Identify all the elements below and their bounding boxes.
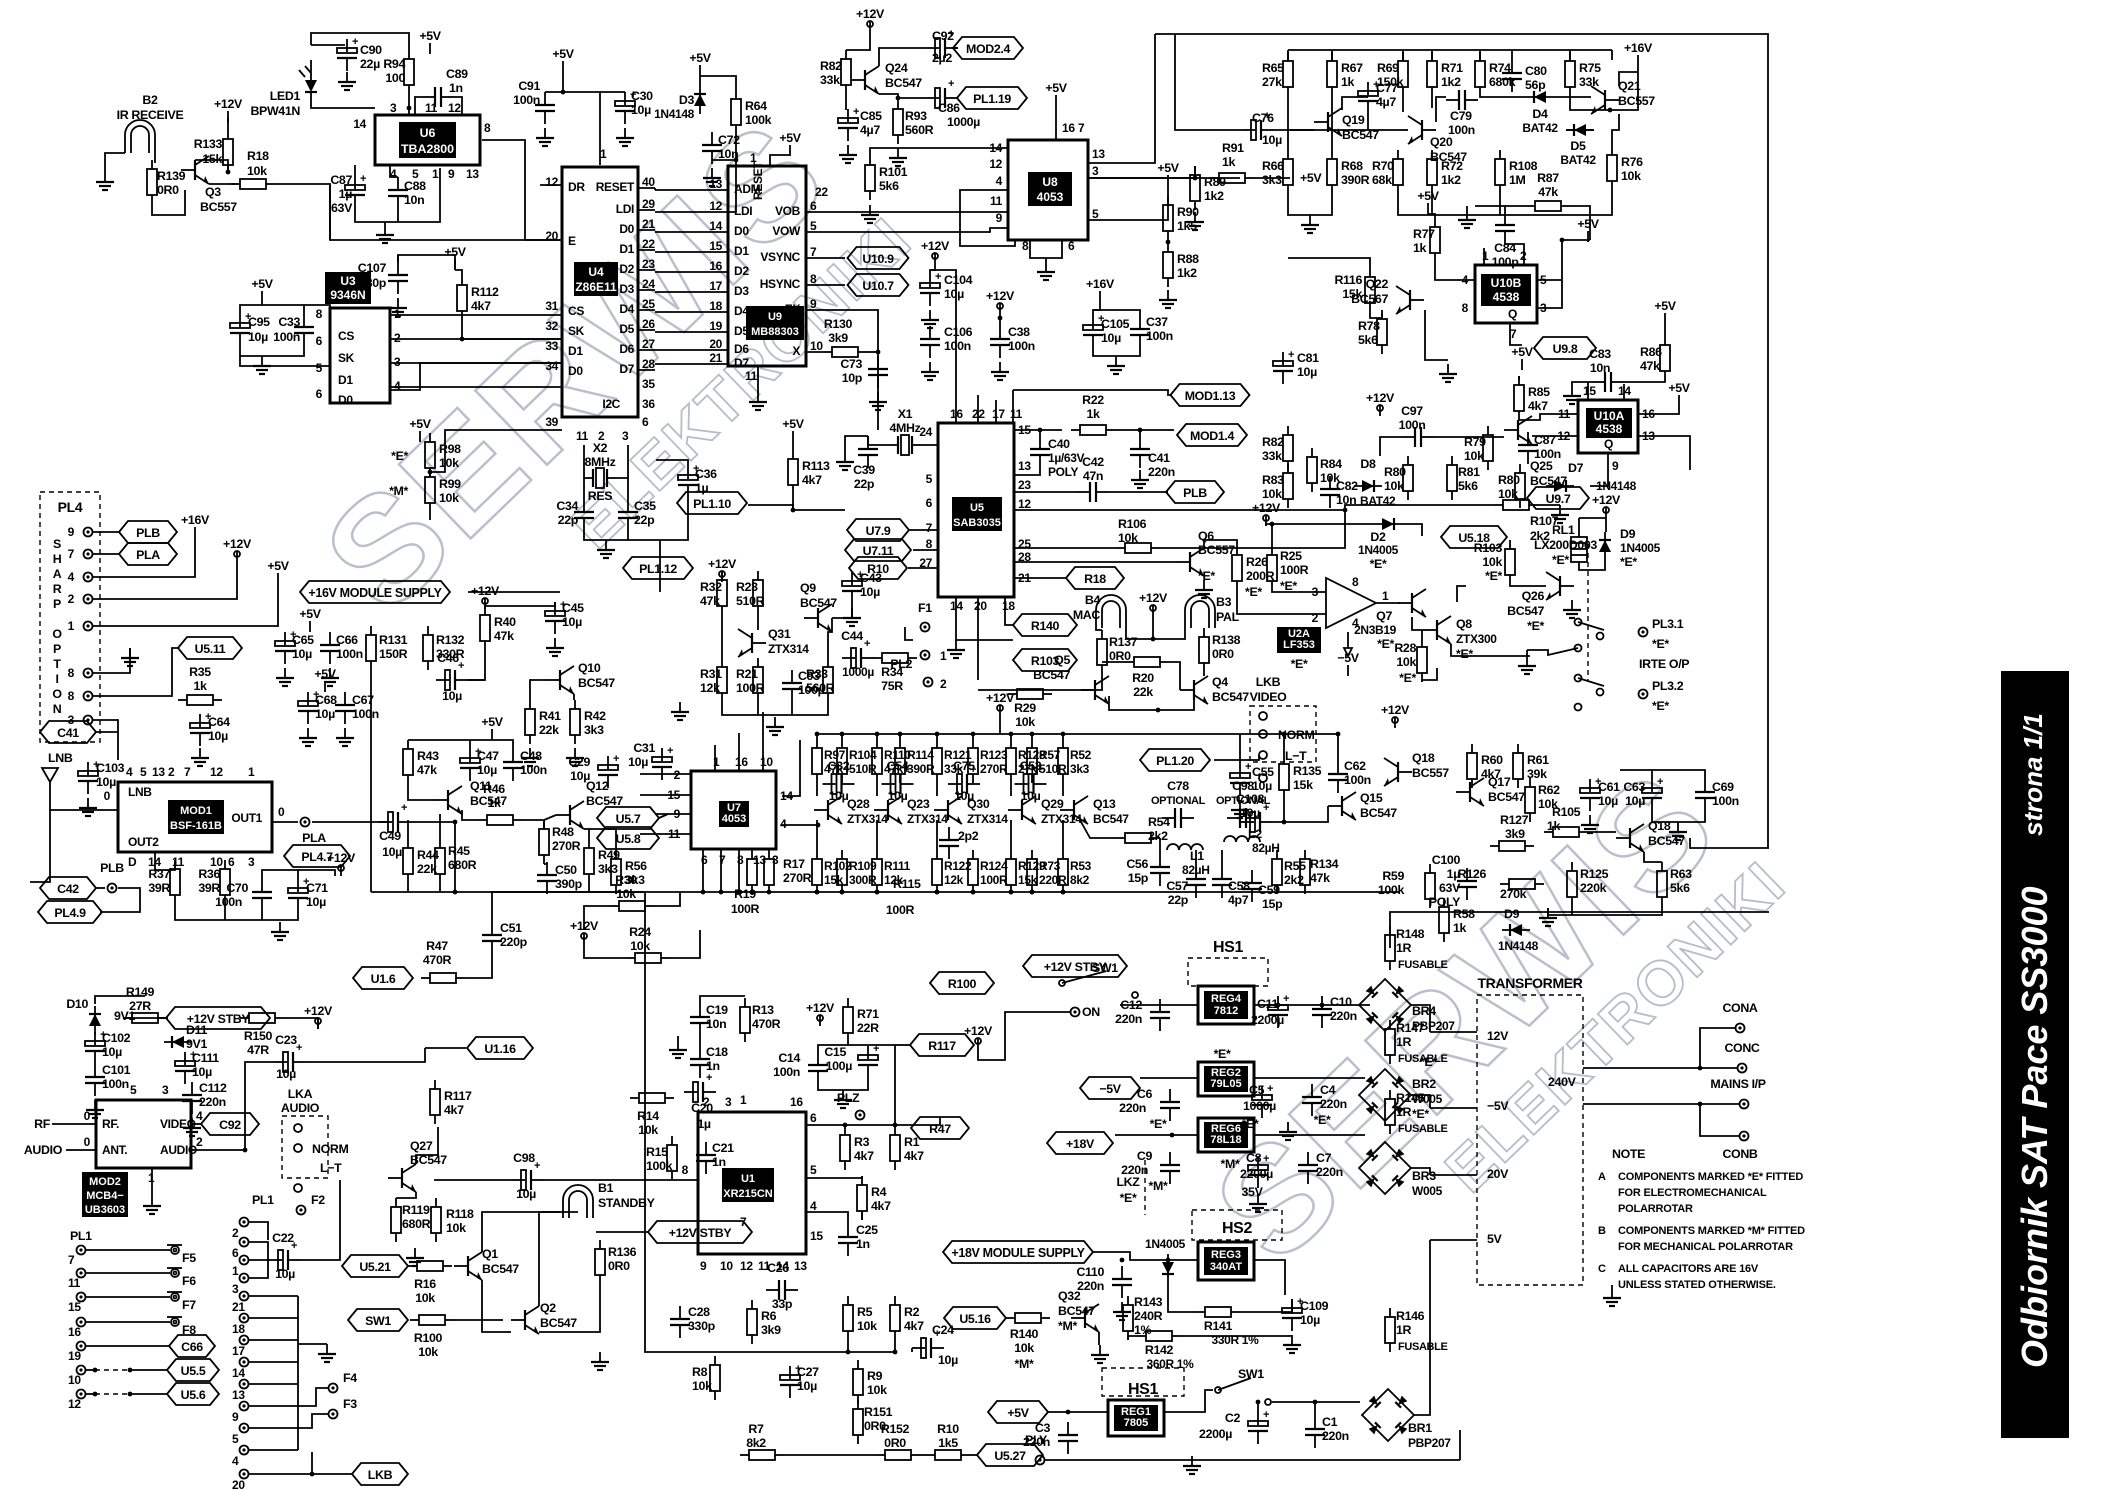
resistor R82(2)	[1262, 426, 1293, 470]
capacitor None	[190, 711, 211, 746]
svg-text:1000µ: 1000µ	[842, 665, 874, 679]
svg-text:21: 21	[642, 217, 655, 231]
bridge rectifier	[1359, 1142, 1411, 1194]
power +5V	[314, 667, 336, 692]
svg-text:22µ: 22µ	[360, 57, 380, 71]
svg-text:*M*: *M*	[1149, 1179, 1168, 1193]
resistor R54	[1116, 833, 1160, 843]
svg-text:R100: R100	[414, 1331, 443, 1345]
svg-text:F1: F1	[918, 601, 932, 615]
resistor R1	[890, 1126, 924, 1170]
wire rl1 bottom	[1579, 560, 1605, 570]
svg-text:ADM: ADM	[734, 182, 761, 196]
wire Q9 down	[1590, 453, 1608, 486]
node	[875, 732, 880, 737]
resistor R7	[740, 1450, 784, 1460]
svg-text:4µ7: 4µ7	[1376, 95, 1396, 109]
resistor R34	[873, 653, 917, 663]
svg-text:220n: 220n	[1115, 1012, 1142, 1026]
wire R139 to Q3	[152, 190, 185, 215]
svg-text:U10A: U10A	[1594, 409, 1625, 423]
power +5V	[251, 277, 273, 302]
ground	[836, 452, 854, 470]
svg-text:1: 1	[1382, 589, 1389, 603]
wire p21	[1014, 577, 1066, 579]
svg-text:R142: R142	[1145, 1343, 1174, 1357]
wire +5V U8	[1055, 106, 1057, 140]
IC U5 SAB3035 body	[938, 423, 1014, 597]
svg-text:C18: C18	[706, 1045, 728, 1059]
resistor R53	[1058, 850, 1092, 894]
svg-text:P: P	[53, 642, 61, 656]
svg-text:R141: R141	[1204, 1319, 1233, 1333]
terminal ON	[1071, 1008, 1080, 1017]
ground	[276, 668, 294, 686]
wire	[861, 1212, 863, 1220]
wire	[583, 478, 585, 499]
capacitor None	[288, 876, 309, 911]
svg-text:Q21: Q21	[1618, 79, 1641, 93]
resistor R114	[895, 739, 935, 783]
wire	[396, 1192, 416, 1198]
wire PL1c	[249, 1383, 298, 1385]
svg-text:*E*: *E*	[1245, 585, 1262, 599]
net flag U5.8	[597, 827, 659, 849]
wire	[1367, 114, 1369, 130]
svg-text:4: 4	[196, 1109, 203, 1123]
IC label U4	[574, 262, 618, 296]
node	[1030, 890, 1035, 895]
terminal F2	[297, 1206, 306, 1215]
wire	[312, 821, 388, 823]
svg-text:U1.6: U1.6	[371, 972, 396, 986]
svg-text:11: 11	[576, 429, 589, 443]
svg-text:BAT42: BAT42	[1560, 153, 1596, 167]
svg-text:HS1: HS1	[1128, 1381, 1159, 1398]
svg-text:27: 27	[642, 337, 655, 351]
capacitor None	[1518, 432, 1538, 464]
resistor R97	[812, 739, 846, 783]
wire	[999, 314, 1001, 326]
wire C108 to Q15	[1273, 806, 1328, 822]
svg-text:R140: R140	[1031, 619, 1060, 633]
IC label U5	[952, 497, 1002, 531]
svg-text:+12V STBY: +12V STBY	[669, 1226, 733, 1240]
terminal PLY	[1036, 1456, 1045, 1465]
capacitor None	[294, 314, 314, 346]
capacitor None	[1150, 999, 1170, 1031]
svg-text:C4: C4	[1320, 1083, 1336, 1097]
svg-text:R23: R23	[736, 580, 758, 594]
wire p4 loop	[960, 190, 1015, 246]
terminal F1	[921, 623, 930, 632]
svg-text:ALL CAPACITORS ARE 16V: ALL CAPACITORS ARE 16V	[1618, 1263, 1759, 1275]
svg-text:100n: 100n	[773, 1065, 800, 1079]
wire	[390, 165, 398, 177]
IC U8 4053 body	[1008, 140, 1088, 240]
svg-text:C54: C54	[887, 759, 909, 773]
node	[1038, 428, 1043, 433]
svg-text:22k: 22k	[539, 723, 559, 737]
net flag U5.6	[167, 1383, 219, 1405]
resistor R149	[123, 1013, 167, 1023]
wire Q7 to Q8	[1412, 617, 1423, 630]
wire R99 down	[429, 512, 431, 520]
svg-text:21: 21	[232, 1300, 245, 1314]
resistor R143	[1123, 1296, 1133, 1340]
resistor R30	[610, 901, 654, 911]
wire	[95, 996, 145, 1004]
svg-text:78L18: 78L18	[1210, 1134, 1241, 1146]
resistor R56	[611, 850, 647, 894]
svg-text:C108: C108	[1236, 792, 1265, 806]
bottom rail U1	[660, 1351, 895, 1353]
svg-text:MOD1: MOD1	[180, 805, 212, 817]
terminal PL3.1	[1639, 628, 1648, 637]
svg-text:1µ/63V: 1µ/63V	[1048, 451, 1085, 465]
svg-text:U5.11: U5.11	[195, 642, 226, 656]
wire	[1239, 734, 1241, 764]
node	[843, 1123, 848, 1128]
capacitor None	[1077, 482, 1109, 502]
svg-text:Q32: Q32	[1058, 1289, 1081, 1303]
svg-text:4: 4	[780, 817, 787, 831]
svg-text:14: 14	[989, 141, 1002, 155]
svg-text:C86: C86	[938, 101, 960, 115]
svg-text:+12V: +12V	[1381, 703, 1410, 717]
svg-text:5: 5	[926, 472, 933, 486]
svg-text:220n: 220n	[1320, 1097, 1347, 1111]
resistor R29	[1008, 689, 1052, 699]
wire	[816, 783, 818, 796]
net flag U10.7	[848, 274, 909, 296]
net flag U9.7	[1527, 487, 1589, 509]
svg-text:REG4: REG4	[1211, 993, 1242, 1005]
svg-text:+16V: +16V	[1624, 41, 1653, 55]
svg-text:330p: 330p	[688, 1319, 716, 1333]
terminal PL1 pin 10	[77, 1366, 86, 1375]
svg-text:R60: R60	[1481, 753, 1503, 767]
wire rail up	[1459, 1430, 1461, 1460]
svg-text:C71: C71	[306, 881, 328, 895]
svg-text:C21: C21	[712, 1141, 734, 1155]
svg-text:C83: C83	[1589, 347, 1611, 361]
IC label U3	[325, 272, 371, 304]
svg-text:D1: D1	[734, 244, 749, 258]
svg-text:1: 1	[248, 765, 255, 779]
wire RF in	[52, 1123, 96, 1125]
terminal PL1c pin 9	[240, 1402, 249, 1411]
module MOD2 body	[96, 1100, 191, 1168]
svg-text:D7: D7	[734, 356, 749, 370]
svg-text:Q17: Q17	[1488, 775, 1511, 789]
capacitor None	[838, 1224, 858, 1256]
svg-text:14: 14	[353, 117, 366, 131]
wire	[262, 870, 298, 879]
IC label REG6	[1204, 1122, 1248, 1148]
svg-text:R124: R124	[980, 859, 1008, 873]
svg-text:10µ: 10µ	[1300, 1313, 1320, 1327]
wire	[1283, 734, 1285, 755]
svg-text:Q23: Q23	[907, 797, 930, 811]
svg-text:R69: R69	[1377, 61, 1399, 75]
svg-text:29: 29	[642, 197, 655, 211]
capacitor C75	[948, 764, 980, 794]
wire	[806, 351, 823, 353]
terminal PLB(2)	[108, 884, 117, 893]
svg-text:8: 8	[484, 121, 491, 135]
svg-text:3k3: 3k3	[1070, 762, 1090, 776]
svg-text:R137: R137	[1109, 635, 1138, 649]
svg-text:*E*: *E*	[1552, 553, 1569, 567]
capacitor None	[670, 1306, 690, 1338]
wire	[936, 734, 938, 739]
power +12V	[1139, 591, 1168, 616]
resistor R128	[1006, 739, 1046, 783]
wire p5	[1537, 240, 1590, 280]
svg-text:U3: U3	[340, 274, 356, 288]
svg-text:D3: D3	[679, 93, 695, 107]
node	[815, 890, 820, 895]
power +12V	[1366, 391, 1395, 416]
svg-text:C56: C56	[1126, 857, 1148, 871]
svg-text:B3: B3	[1216, 595, 1232, 609]
resistor R3	[840, 1126, 874, 1170]
node	[1608, 108, 1613, 113]
svg-text:R48: R48	[552, 825, 574, 839]
wire	[1203, 627, 1205, 629]
wire	[249, 1259, 269, 1261]
wire	[1700, 1067, 1737, 1069]
resistor R117	[430, 1080, 472, 1124]
svg-text:C7: C7	[1316, 1151, 1332, 1165]
node	[935, 890, 940, 895]
terminal MAINS2	[1740, 1132, 1749, 1141]
svg-text:D6: D6	[619, 342, 634, 356]
ground	[1551, 505, 1569, 523]
wire	[806, 257, 845, 259]
svg-text:BC547: BC547	[1507, 604, 1544, 618]
wire +12V to D2	[1266, 524, 1374, 526]
svg-text:O: O	[52, 627, 62, 641]
wire	[832, 604, 852, 618]
wire	[1221, 850, 1223, 866]
ground	[1669, 822, 1687, 840]
resistor R36	[220, 860, 230, 904]
svg-text:16: 16	[68, 1325, 81, 1339]
loop link	[563, 1185, 593, 1218]
resistor R151	[853, 1400, 863, 1444]
svg-text:220n: 220n	[1322, 1429, 1349, 1443]
svg-text:VOB: VOB	[775, 204, 801, 218]
resistor R2	[890, 1296, 924, 1340]
ground	[921, 310, 939, 328]
resistor R33	[806, 658, 835, 702]
svg-text:PLB: PLB	[1183, 486, 1207, 500]
svg-text:C66: C66	[181, 1340, 203, 1354]
wire	[1128, 1336, 1137, 1340]
connector PL4 dashed box	[40, 492, 100, 742]
resistor R74	[1475, 52, 1516, 96]
ground	[79, 798, 97, 816]
svg-text:4: 4	[810, 1199, 817, 1213]
svg-text:10k: 10k	[638, 1123, 658, 1137]
node	[750, 890, 755, 895]
wire	[600, 91, 625, 93]
resistor R63	[1657, 862, 1667, 906]
wire	[1062, 783, 1064, 796]
power +5V	[1511, 345, 1533, 370]
svg-text:C70: C70	[226, 881, 248, 895]
wire	[845, 436, 868, 452]
resistor R100	[410, 1315, 454, 1325]
svg-text:C82: C82	[1336, 479, 1358, 493]
wire	[1624, 380, 1665, 382]
svg-text:100n: 100n	[1146, 329, 1173, 343]
wire	[1167, 240, 1169, 243]
svg-text:R18: R18	[1084, 572, 1106, 586]
capacitor None	[252, 879, 272, 911]
capacitor None	[842, 638, 874, 668]
wire	[1505, 205, 1526, 207]
svg-text:LKA: LKA	[288, 1087, 313, 1101]
svg-text:U10.9: U10.9	[862, 252, 894, 266]
svg-text:510R: 510R	[736, 594, 765, 608]
svg-text:4: 4	[390, 167, 397, 181]
connector LKA NORM	[282, 1116, 348, 1192]
svg-text:HS2: HS2	[1222, 1220, 1253, 1237]
svg-text:3: 3	[622, 429, 629, 443]
svg-text:10k: 10k	[1262, 487, 1282, 501]
capacitor C80	[1502, 60, 1547, 92]
wire	[1431, 194, 1433, 215]
wire	[920, 1454, 926, 1456]
wire +5V	[261, 302, 263, 305]
ground	[1186, 212, 1204, 230]
resistor R19	[747, 850, 757, 894]
wire gnd link	[1527, 648, 1578, 655]
svg-text:6: 6	[232, 1246, 239, 1260]
svg-text:*E*: *E*	[1652, 699, 1669, 713]
svg-text:3k9: 3k9	[828, 331, 848, 345]
svg-text:10k: 10k	[867, 1383, 887, 1397]
svg-text:7: 7	[184, 765, 191, 779]
svg-text:NOTE: NOTE	[1612, 1147, 1645, 1161]
svg-text:3k3: 3k3	[1262, 173, 1282, 187]
capacitor None	[838, 106, 859, 141]
svg-text:PLZ: PLZ	[837, 1091, 860, 1105]
wire	[1587, 240, 1589, 242]
wire	[1254, 177, 1290, 179]
wire	[818, 1078, 868, 1090]
svg-text:+12V: +12V	[856, 7, 885, 21]
net flag PL1.10	[677, 492, 747, 514]
wire PL1c	[249, 1295, 298, 1297]
svg-text:5: 5	[316, 361, 323, 375]
svg-text:LKZ: LKZ	[1116, 1175, 1140, 1189]
capacitor None	[230, 311, 251, 346]
wire	[468, 650, 485, 680]
svg-text:12: 12	[709, 199, 722, 213]
node	[407, 106, 412, 111]
svg-text:C75: C75	[953, 759, 975, 773]
svg-text:C47: C47	[477, 749, 499, 763]
svg-text:12k: 12k	[944, 873, 964, 887]
resistor R126	[1500, 879, 1544, 889]
svg-text:6: 6	[316, 387, 323, 401]
resistor R138	[1199, 628, 1209, 672]
ground	[703, 168, 721, 186]
resistor R41	[525, 700, 561, 744]
svg-text:10µ: 10µ	[631, 103, 651, 117]
capacitor None	[460, 746, 481, 781]
capacitor None	[690, 1046, 710, 1078]
wire R112 to bus	[462, 320, 562, 339]
wire	[828, 618, 832, 658]
wire	[1331, 96, 1333, 150]
svg-text:D0: D0	[338, 393, 353, 407]
svg-text:+16V: +16V	[181, 513, 210, 527]
wire bottom rail	[1109, 696, 1194, 710]
svg-text:MOD2.4: MOD2.4	[966, 42, 1010, 56]
svg-text:C50: C50	[555, 863, 577, 877]
wire	[952, 47, 958, 49]
svg-text:4µ7: 4µ7	[860, 123, 880, 137]
svg-text:6: 6	[926, 496, 933, 510]
svg-text:R13: R13	[752, 1003, 774, 1017]
svg-text:10: 10	[720, 1259, 733, 1273]
svg-text:C95: C95	[248, 315, 270, 329]
capacitor None	[920, 326, 940, 358]
ground	[591, 1352, 609, 1370]
svg-text:10k: 10k	[692, 1379, 712, 1393]
capacitor None	[335, 692, 355, 724]
wire	[93, 553, 119, 555]
svg-text:R55: R55	[1284, 859, 1306, 873]
wire EX down	[806, 310, 878, 430]
transistor	[1314, 108, 1342, 136]
svg-text:T: T	[53, 657, 61, 671]
wire p13	[1638, 436, 1690, 470]
svg-text:C44: C44	[841, 629, 863, 643]
resistor R71	[1427, 52, 1463, 96]
svg-text:4p7: 4p7	[1228, 893, 1249, 907]
svg-text:R123: R123	[980, 748, 1008, 762]
svg-text:+12V: +12V	[304, 1004, 333, 1018]
wire	[1045, 258, 1047, 262]
wire	[1168, 1282, 1196, 1312]
wire	[845, 94, 847, 110]
wire	[303, 305, 305, 314]
wire pin3	[93, 720, 118, 760]
wire C89 left	[415, 97, 422, 115]
svg-text:+5V: +5V	[1577, 217, 1599, 231]
svg-text:39: 39	[545, 415, 558, 429]
svg-text:PL1.12: PL1.12	[639, 562, 677, 576]
svg-text:3: 3	[394, 355, 401, 369]
transistor	[1328, 792, 1356, 820]
svg-text:R67: R67	[1341, 61, 1363, 75]
svg-text:8: 8	[810, 272, 817, 286]
wire stub	[1511, 50, 1513, 60]
diode	[1502, 924, 1530, 936]
wire	[1140, 1077, 1198, 1079]
wire U5.7	[659, 814, 668, 818]
svg-text:U1: U1	[741, 1173, 755, 1185]
svg-text:+5V: +5V	[1007, 1406, 1029, 1420]
svg-text:13: 13	[466, 167, 479, 181]
wire +12V down to U5	[930, 270, 956, 420]
